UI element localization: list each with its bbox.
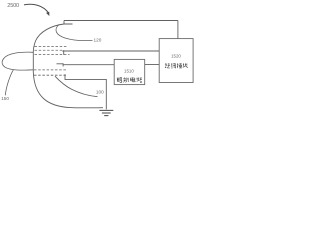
svg-text:2500: 2500 bbox=[7, 3, 19, 9]
inner curve (leader toward 100) bbox=[55, 76, 98, 97]
wire w5 to ground bbox=[65, 79, 107, 109]
text 控制模块 (drawn glyphs) bbox=[165, 63, 188, 68]
wire w2 to control module bbox=[62, 50, 159, 52]
svg-text:1510: 1510 bbox=[124, 69, 134, 74]
svg-text:100: 100 bbox=[96, 89, 104, 94]
stub at w5 start bbox=[64, 74, 66, 79]
wire w1 top line bbox=[64, 20, 178, 22]
driver circuit box 1510 bbox=[114, 59, 145, 84]
ground bbox=[99, 110, 113, 115]
dashed hidden layer line 3 bbox=[35, 54, 70, 56]
dashed hidden layer line 5 bbox=[34, 74, 66, 76]
svg-text:150: 150 bbox=[1, 96, 9, 101]
outer curve of curved cover bbox=[33, 24, 103, 108]
svg-text:1520: 1520 bbox=[171, 54, 181, 59]
svg-text:120: 120 bbox=[94, 38, 102, 43]
wire w3 to driver circuit bbox=[63, 64, 114, 66]
dashed hidden layer line 4 bbox=[34, 69, 67, 71]
dashed hidden layer line 2 bbox=[35, 49, 63, 51]
layer step at top plate bbox=[64, 21, 73, 25]
text 驱动电路 (drawn glyphs) bbox=[117, 77, 142, 82]
control module box 1520 bbox=[159, 39, 193, 83]
dashed hidden layer line 1 bbox=[35, 46, 69, 48]
leader for 120 bbox=[56, 25, 93, 41]
wire w4 driver to control module bbox=[145, 64, 160, 66]
layer step at w3 bbox=[57, 63, 64, 66]
wire w1 vertical into control module bbox=[177, 21, 179, 39]
leader arrow for 2500 bbox=[24, 4, 49, 15]
leader for 150 tail bbox=[5, 70, 13, 96]
stub at w2 start bbox=[63, 50, 65, 55]
leader for 150 loop bbox=[2, 52, 33, 70]
